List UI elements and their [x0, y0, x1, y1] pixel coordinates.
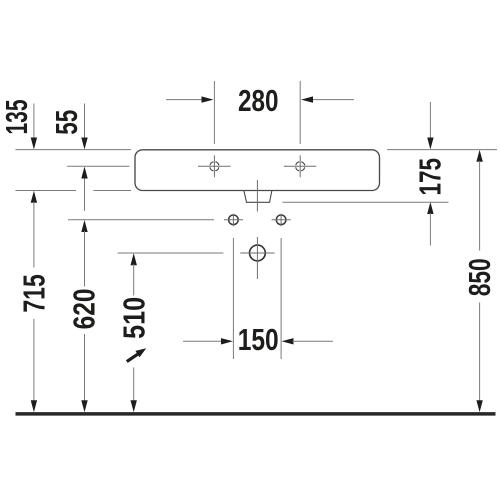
mounting hole left — [224, 214, 243, 227]
dimension 55 label — [49, 110, 84, 135]
dimension 150 right extension — [280, 238, 282, 359]
dimension 850 label — [462, 258, 497, 296]
svg-text:55: 55 — [49, 110, 84, 135]
dimension 620 line — [81, 220, 87, 412]
extension line basin bottom left b — [94, 190, 132, 192]
svg-text:135: 135 — [0, 100, 34, 135]
dimension 280 right extension — [299, 81, 301, 144]
dimension 135 arrow — [31, 104, 37, 150]
basin centerline — [256, 180, 258, 212]
extension line basin bottom left a — [15, 190, 76, 192]
510 pointer arrow — [127, 348, 146, 361]
svg-text:510: 510 — [116, 297, 151, 339]
dimension 715 line — [31, 191, 37, 413]
dimension 620 label — [67, 288, 102, 329]
dimension 175 label — [412, 158, 447, 196]
svg-text:175: 175 — [412, 158, 447, 196]
faucet hole right crosshair — [284, 155, 317, 177]
dimension 55 top arrow — [81, 104, 87, 150]
mounting hole right — [272, 214, 291, 227]
dimension 510 label — [116, 297, 151, 339]
extension line mounting holes — [68, 219, 214, 221]
dimension 510 line — [131, 253, 137, 412]
washbasin outline — [135, 150, 380, 191]
svg-text:715: 715 — [16, 274, 51, 313]
extension line trapezoid bottom right — [282, 201, 448, 203]
dimension 280 left arrow — [166, 96, 214, 102]
svg-text:620: 620 — [67, 288, 102, 329]
extension line drain center — [118, 252, 224, 254]
dimension 850 line — [476, 150, 482, 412]
dimension 175 top arrow — [427, 102, 433, 150]
dimension 150 left arrow — [183, 338, 233, 344]
dimension 135 label — [0, 100, 34, 135]
svg-text:850: 850 — [462, 258, 497, 296]
dimension 55 bottom arrow — [81, 167, 87, 212]
faucet hole left crosshair — [198, 155, 231, 177]
dimension 280 right arrow — [301, 96, 354, 102]
drain trapezoid under basin — [244, 191, 272, 203]
dimension 715 label — [16, 274, 51, 313]
extension line basin top right — [387, 149, 497, 151]
extension line faucet plane — [67, 165, 130, 167]
drain hole circle — [240, 237, 274, 279]
svg-text:150: 150 — [238, 322, 279, 357]
extension line basin top left — [15, 149, 131, 151]
dimension 150 left extension — [232, 238, 234, 359]
dimension 150 right arrow — [282, 338, 334, 344]
dimension 280 left extension — [213, 81, 215, 144]
floor line — [16, 412, 496, 416]
dimension 175 bottom arrow — [427, 202, 433, 246]
svg-text:280: 280 — [238, 83, 279, 118]
